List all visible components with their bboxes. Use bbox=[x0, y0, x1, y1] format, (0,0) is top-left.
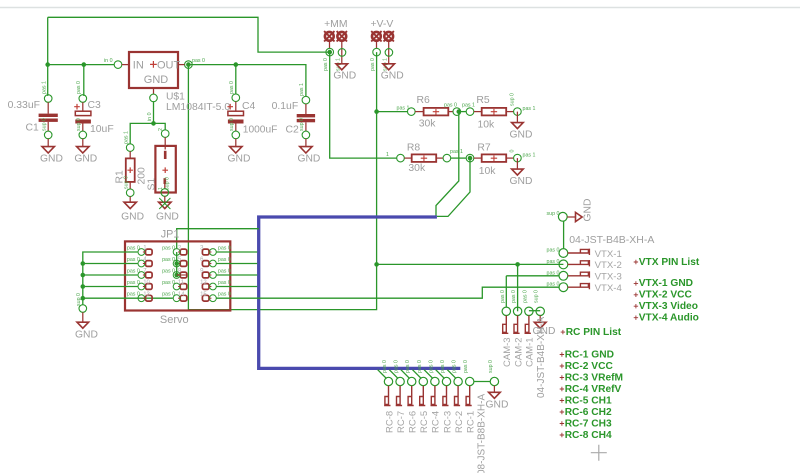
svg-text:RC-6 CH2: RC-6 CH2 bbox=[565, 407, 612, 418]
svg-text:RC-1: RC-1 bbox=[466, 411, 477, 433]
svg-text:GND: GND bbox=[333, 70, 356, 81]
svg-text:C1: C1 bbox=[26, 123, 40, 134]
pin GND of U$1 bbox=[147, 88, 157, 121]
text RC-8 CH4 bbox=[560, 430, 612, 441]
svg-text:pas 0: pas 0 bbox=[547, 259, 560, 265]
wire JP1 ch2 to bus bbox=[216, 263, 257, 265]
resistor R8 30k bbox=[386, 152, 451, 162]
pin RC-2 bbox=[447, 360, 465, 433]
pad JP1 col3 row3 bbox=[200, 269, 231, 279]
svg-text:10: 10 bbox=[143, 280, 150, 286]
svg-text:VTX-4 Audio: VTX-4 Audio bbox=[639, 313, 699, 324]
ground right of R7 bbox=[510, 150, 533, 187]
svg-text:30k: 30k bbox=[408, 163, 426, 174]
svg-text:VTX-3: VTX-3 bbox=[595, 272, 622, 283]
text VTX-2 VCC bbox=[634, 290, 693, 301]
svg-text:Servo: Servo bbox=[160, 314, 189, 326]
pin CAM GND bbox=[534, 290, 545, 316]
svg-text:pas 0: pas 0 bbox=[547, 248, 560, 254]
svg-text:pas 0: pas 0 bbox=[511, 290, 517, 303]
wire JP1 row5 to VTX-4 (audio) bbox=[216, 287, 559, 298]
svg-text:C4: C4 bbox=[242, 101, 256, 112]
svg-text:10uF: 10uF bbox=[90, 124, 114, 135]
svg-text:pas 0: pas 0 bbox=[162, 246, 175, 252]
ground below S1 bbox=[156, 196, 179, 222]
text RC-2 VCC bbox=[560, 361, 614, 372]
pin OUT of U$1 bbox=[178, 58, 205, 68]
sheet origin cross bbox=[591, 445, 607, 461]
svg-text:RC-4 VRefV: RC-4 VRefV bbox=[565, 384, 622, 395]
svg-text:pas 1: pas 1 bbox=[42, 81, 48, 94]
svg-text:pas 1: pas 1 bbox=[462, 103, 475, 109]
junction gnd rail bbox=[81, 284, 86, 289]
svg-text:pas 0: pas 0 bbox=[522, 290, 528, 303]
pin IN of U$1 bbox=[104, 58, 129, 68]
pin RC-5 bbox=[413, 360, 431, 433]
capacitor C1 0.33uF bbox=[39, 81, 58, 139]
svg-text:GND: GND bbox=[583, 199, 594, 222]
wire VIN drop to C1/IN bbox=[47, 17, 49, 64]
wire to S1 bbox=[154, 123, 166, 129]
svg-text:GND: GND bbox=[121, 211, 144, 222]
svg-text:GND: GND bbox=[156, 211, 179, 222]
junction gnd rail bbox=[81, 273, 86, 278]
wire JP1 ch1 to bus bbox=[216, 251, 257, 253]
svg-text:pas 0: pas 0 bbox=[463, 360, 469, 373]
svg-text:GND: GND bbox=[510, 176, 533, 187]
svg-text:OUT: OUT bbox=[157, 59, 181, 71]
pin RC-8 bbox=[378, 360, 396, 433]
svg-text:RC-8: RC-8 bbox=[384, 411, 395, 433]
pad JP1 col1 row4 bbox=[127, 280, 152, 290]
svg-text:sup 0: sup 0 bbox=[76, 118, 82, 131]
svg-text:CAM-1: CAM-1 bbox=[525, 337, 536, 367]
svg-text:RC-2: RC-2 bbox=[454, 411, 465, 433]
svg-text:+V-V: +V-V bbox=[370, 19, 393, 30]
svg-text:S1: S1 bbox=[147, 178, 158, 191]
svg-text:in 0: in 0 bbox=[104, 58, 113, 64]
svg-text:sup 0: sup 0 bbox=[534, 290, 540, 303]
svg-text:12: 12 bbox=[200, 280, 207, 286]
svg-text:pas 1: pas 1 bbox=[450, 149, 463, 155]
svg-text:sup 0: sup 0 bbox=[42, 118, 48, 131]
resistor R7 10k bbox=[466, 153, 535, 162]
connector JP1 outline bbox=[125, 241, 230, 310]
svg-text:RC-6: RC-6 bbox=[408, 411, 419, 433]
pin RC-6 bbox=[401, 360, 419, 433]
wire VTX-3 to CAM-3 bbox=[506, 275, 559, 277]
svg-text:pas 0: pas 0 bbox=[547, 282, 560, 288]
junction gnd rail bbox=[81, 261, 86, 266]
pin VTX-4 bbox=[547, 282, 623, 294]
ground right of R5 bbox=[510, 93, 533, 140]
svg-text:sup 0: sup 0 bbox=[299, 118, 305, 131]
wire C1 stub bbox=[47, 65, 49, 96]
svg-text:sup 0: sup 0 bbox=[547, 211, 560, 217]
svg-text:GND: GND bbox=[510, 129, 533, 140]
pin GND rail bbox=[79, 305, 87, 313]
pad +V-V 1 bbox=[370, 31, 382, 71]
svg-text:LM1084IT-5.0: LM1084IT-5.0 bbox=[166, 102, 230, 113]
pad JP1 col3 row4 bbox=[200, 280, 231, 290]
svg-text:sup 0: sup 0 bbox=[76, 293, 82, 306]
pad JP1 col2 row2 bbox=[162, 257, 187, 267]
text VTX-3 Video bbox=[634, 301, 698, 312]
svg-text:11: 11 bbox=[178, 280, 185, 286]
wire JP1 middle column pins 1-3 bbox=[176, 252, 178, 275]
pin RC-4 bbox=[424, 360, 442, 433]
svg-text:sup 0: sup 0 bbox=[229, 118, 235, 131]
svg-text:pas 0: pas 0 bbox=[500, 290, 506, 303]
pin CAM-1 bbox=[522, 290, 535, 367]
capacitor C4 1000uF bbox=[227, 81, 243, 139]
svg-text:VTX-2 VCC: VTX-2 VCC bbox=[639, 290, 693, 301]
wire VIN to IN pin bbox=[48, 64, 115, 66]
svg-text:pas 0: pas 0 bbox=[218, 246, 231, 252]
svg-text:GND: GND bbox=[297, 153, 320, 164]
pad JP1 col3 row1 bbox=[200, 246, 231, 256]
wire JP1 gnd row 2 bbox=[83, 263, 138, 265]
svg-text:pas 0: pas 0 bbox=[218, 280, 231, 286]
svg-text:sup 0: sup 0 bbox=[165, 177, 171, 190]
junction C4 tap bbox=[234, 62, 239, 67]
ground below C3 bbox=[74, 139, 97, 165]
svg-text:JP1: JP1 bbox=[161, 228, 180, 240]
svg-text:R7: R7 bbox=[477, 143, 491, 154]
text RC-3 VRefM bbox=[560, 372, 623, 383]
ground below CAM connector bbox=[533, 316, 556, 338]
junction +MM pad bbox=[327, 50, 332, 55]
wire CAM-1 to CAM GND pin bbox=[529, 310, 540, 312]
svg-text:sup 0: sup 0 bbox=[510, 93, 516, 106]
svg-text:pas 0: pas 0 bbox=[76, 81, 82, 94]
wire JP1 gnd row 4 bbox=[83, 286, 138, 288]
switch S1 bbox=[155, 128, 175, 196]
svg-text:RC-7: RC-7 bbox=[396, 411, 407, 433]
wire +MM down to R8 bbox=[330, 52, 397, 158]
text RC-6 CH2 bbox=[560, 407, 612, 418]
wire R8 to R7 bbox=[450, 149, 472, 160]
svg-text:pas 0: pas 0 bbox=[382, 360, 388, 373]
wire VCC to CAM-2 bbox=[517, 264, 519, 311]
svg-text:GND: GND bbox=[75, 330, 98, 341]
svg-text:pas 0: pas 0 bbox=[127, 257, 140, 263]
svg-text:pas 0: pas 0 bbox=[394, 360, 400, 373]
junction gnd rail bbox=[81, 296, 86, 301]
wire JP1 gnd row 5 bbox=[83, 297, 173, 299]
svg-text:sup 0: sup 0 bbox=[488, 360, 494, 373]
svg-text:1000uF: 1000uF bbox=[243, 124, 278, 135]
svg-text:pas 1: pas 1 bbox=[299, 83, 305, 96]
pin VTX-3 bbox=[547, 270, 622, 282]
wire JP1 ch4 to bus bbox=[216, 286, 257, 288]
svg-text:GND: GND bbox=[381, 70, 404, 81]
text VTX PIN List bbox=[634, 257, 700, 268]
pad JP1 col3 row5 bbox=[200, 292, 231, 302]
svg-text:pas 0: pas 0 bbox=[428, 360, 434, 373]
svg-text:pas 0: pas 0 bbox=[218, 269, 231, 275]
svg-text:IN: IN bbox=[133, 59, 144, 71]
svg-text:30k: 30k bbox=[419, 119, 437, 130]
wire C4 stub bbox=[235, 65, 237, 94]
ground below C4 bbox=[228, 139, 251, 165]
svg-text:RC PIN List: RC PIN List bbox=[566, 327, 622, 338]
pin VTX-2 bbox=[547, 259, 622, 271]
svg-text:GND: GND bbox=[40, 153, 63, 164]
svg-text:U$1: U$1 bbox=[166, 92, 185, 103]
svg-text:pas 1: pas 1 bbox=[523, 153, 536, 159]
junction +V-V to R6 bbox=[374, 109, 379, 114]
svg-text:RC-7 CH3: RC-7 CH3 bbox=[565, 418, 612, 429]
wire C3 stub bbox=[83, 65, 85, 96]
svg-text:1: 1 bbox=[386, 152, 389, 158]
pin CAM-3 bbox=[500, 290, 513, 367]
junction mid col row3 bbox=[174, 273, 179, 278]
svg-text:VTX-4: VTX-4 bbox=[595, 283, 623, 294]
resistor R6 30k bbox=[397, 106, 461, 116]
svg-text:0: 0 bbox=[510, 150, 516, 153]
wire VIN top rail bbox=[48, 17, 330, 52]
svg-text:C3: C3 bbox=[88, 100, 102, 111]
pad +MM 2 bbox=[335, 31, 347, 71]
svg-text:VTX-1 GND: VTX-1 GND bbox=[639, 278, 693, 289]
wire OUT net horizontal bbox=[188, 65, 306, 97]
pad JP1 col2 row5 bbox=[162, 292, 187, 302]
svg-text:pas 0: pas 0 bbox=[444, 103, 457, 109]
svg-text:CAM-2: CAM-2 bbox=[513, 337, 524, 367]
pin RC-1 bbox=[463, 360, 476, 433]
svg-text:1: 1 bbox=[158, 187, 164, 190]
svg-text:VTX-2: VTX-2 bbox=[595, 260, 622, 271]
pad JP1 col1 row2 bbox=[127, 257, 152, 267]
svg-text:04-JST-B4B-XH-A: 04-JST-B4B-XH-A bbox=[536, 317, 547, 398]
resistor R1 200 bbox=[124, 131, 135, 197]
svg-text:2: 2 bbox=[158, 128, 164, 131]
svg-text:10k: 10k bbox=[479, 166, 497, 177]
svg-text:pas 1: pas 1 bbox=[124, 131, 130, 144]
pin RC GND bbox=[488, 360, 499, 386]
wire JP1 gnd row 3 bbox=[83, 274, 138, 276]
svg-text:GND: GND bbox=[74, 153, 97, 164]
svg-text:0.33uF: 0.33uF bbox=[8, 100, 40, 111]
svg-text:RC-5: RC-5 bbox=[419, 411, 430, 433]
svg-text:pas 0: pas 0 bbox=[370, 58, 376, 71]
svg-text:GND: GND bbox=[144, 74, 169, 86]
svg-text:pas 0: pas 0 bbox=[127, 280, 140, 286]
svg-text:pas 0: pas 0 bbox=[162, 269, 175, 275]
ground above VTX-1 bbox=[547, 199, 594, 222]
svg-text:VTX-3 Video: VTX-3 Video bbox=[639, 301, 698, 312]
pin RC-3 bbox=[436, 360, 454, 433]
svg-text:R6: R6 bbox=[417, 95, 431, 106]
wire JP1 ground rail bbox=[83, 252, 138, 305]
svg-text:in 0: in 0 bbox=[147, 112, 153, 121]
pad JP1 col2 row4 bbox=[162, 280, 187, 290]
svg-text:GND: GND bbox=[228, 153, 251, 164]
pad +MM 1 bbox=[323, 31, 335, 71]
svg-text:pas 0: pas 0 bbox=[127, 292, 140, 298]
svg-text:pas 0: pas 0 bbox=[229, 81, 235, 94]
svg-text:15: 15 bbox=[200, 292, 207, 298]
wire bus to JP1 middle column bbox=[177, 229, 259, 249]
svg-text:RC-3: RC-3 bbox=[442, 411, 453, 433]
wire VRefV R6/R5 junction to bus bbox=[436, 112, 459, 218]
voltage regulator U$1 LM1084IT-5.0 bbox=[129, 52, 181, 88]
junction VIN/C1 bbox=[45, 62, 50, 67]
capacitor C3 10uF bbox=[74, 81, 91, 139]
wire JP1 ch3 to bus bbox=[216, 274, 257, 276]
pad JP1 col1 row3 bbox=[127, 269, 152, 279]
text VTX-4 Audio bbox=[634, 313, 699, 324]
pin CAM-2 bbox=[511, 290, 524, 367]
junction CAM-2 tap bbox=[515, 262, 520, 267]
pad +V-V 2 bbox=[382, 31, 394, 71]
svg-text:pas 0: pas 0 bbox=[218, 292, 231, 298]
ground below C2 bbox=[297, 139, 320, 165]
ground below RC connector bbox=[486, 386, 509, 411]
svg-text:04-JST-B4B-XH-A: 04-JST-B4B-XH-A bbox=[569, 234, 654, 246]
svg-text:pas 0: pas 0 bbox=[405, 360, 411, 373]
wire OUT down through JP1 to +V-V bbox=[188, 52, 376, 310]
svg-text:VTX PIN List: VTX PIN List bbox=[639, 257, 700, 268]
pad JP1 col2 row1 bbox=[162, 246, 187, 256]
pad JP1 col2 row3 bbox=[162, 269, 187, 279]
junction R6/R5 bbox=[444, 103, 466, 114]
ground below C1 bbox=[40, 139, 63, 165]
svg-text:RC-8 CH4: RC-8 CH4 bbox=[565, 430, 612, 441]
svg-text:pas 0: pas 0 bbox=[452, 360, 458, 373]
svg-text:10k: 10k bbox=[478, 119, 496, 130]
pin VTX-1 bbox=[547, 248, 622, 260]
svg-text:08-JST-B8B-XH-A: 08-JST-B8B-XH-A bbox=[476, 394, 487, 473]
svg-text:pas 1: pas 1 bbox=[523, 106, 536, 112]
wire VRefM R8/R7 junction to bus bbox=[437, 158, 470, 216]
wire U$1 GND to R1/S1 bbox=[153, 102, 155, 124]
junction GND pin net bbox=[151, 121, 156, 126]
junction OUT pin bbox=[186, 62, 191, 67]
svg-text:pas 0: pas 0 bbox=[162, 292, 175, 298]
text RC PIN List bbox=[561, 327, 622, 338]
svg-text:pas 0: pas 0 bbox=[127, 269, 140, 275]
text RC-4 VRefV bbox=[560, 384, 622, 395]
ground below R1 bbox=[121, 197, 144, 223]
svg-text:R5: R5 bbox=[476, 95, 490, 106]
text RC-1 GND bbox=[560, 349, 614, 360]
pad JP1 col3 row2 bbox=[200, 257, 231, 267]
svg-text:+MM: +MM bbox=[324, 19, 347, 30]
svg-text:pas 0: pas 0 bbox=[417, 360, 423, 373]
junction C3 tap bbox=[82, 62, 87, 67]
wire VCC to VTX-2 bbox=[377, 263, 564, 265]
resistor R5 10k bbox=[462, 103, 536, 116]
svg-text:RC-5 CH1: RC-5 CH1 bbox=[565, 395, 612, 406]
svg-text:C2: C2 bbox=[286, 124, 300, 135]
svg-text:pas 0: pas 0 bbox=[218, 257, 231, 263]
svg-text:VTX-1: VTX-1 bbox=[595, 249, 622, 260]
wire VTX-1 to ground bbox=[563, 221, 565, 248]
pad JP1 col1 row1 bbox=[127, 246, 152, 256]
bus (blue) bbox=[259, 217, 461, 368]
svg-text:0.1uF: 0.1uF bbox=[272, 101, 299, 112]
svg-text:pas 0: pas 0 bbox=[162, 280, 175, 286]
pin RC-7 bbox=[389, 360, 407, 433]
svg-text:R1: R1 bbox=[115, 170, 126, 184]
junction mid col row2 bbox=[174, 261, 179, 266]
wire RC-1 to GND pin bbox=[474, 381, 490, 383]
text RC-7 CH3 bbox=[560, 418, 612, 429]
wire +V-V to R6 bbox=[377, 111, 408, 113]
svg-text:RC-3 VRefM: RC-3 VRefM bbox=[565, 372, 623, 383]
svg-text:RC-4: RC-4 bbox=[431, 411, 442, 433]
ground below JP1 rail bbox=[75, 293, 98, 341]
svg-text:RC-1 GND: RC-1 GND bbox=[565, 349, 614, 360]
text VTX-1 GND bbox=[634, 278, 693, 289]
junction VTX-2 tap bbox=[374, 262, 379, 267]
wire to R1 bbox=[130, 123, 153, 143]
svg-text:pas 0: pas 0 bbox=[440, 360, 446, 373]
svg-text:pas 0: pas 0 bbox=[192, 58, 205, 64]
svg-text:pas 0: pas 0 bbox=[162, 257, 175, 263]
svg-text:R8: R8 bbox=[407, 143, 421, 154]
text RC-5 CH1 bbox=[560, 395, 612, 406]
svg-text:pas 1: pas 1 bbox=[397, 106, 410, 112]
svg-text:CAM-3: CAM-3 bbox=[502, 337, 513, 367]
svg-text:GND: GND bbox=[486, 399, 509, 410]
svg-text:RC-2 VCC: RC-2 VCC bbox=[565, 361, 614, 372]
svg-text:13: 13 bbox=[143, 292, 150, 298]
svg-text:14: 14 bbox=[178, 292, 185, 298]
ground below +V-V bbox=[381, 64, 404, 82]
capacitor C2 0.1uF bbox=[297, 83, 315, 139]
pad JP1 col1 row5 bbox=[127, 292, 152, 302]
svg-text:pas 0: pas 0 bbox=[323, 58, 329, 71]
svg-text:pas 0: pas 0 bbox=[127, 246, 140, 252]
ground below +MM bbox=[333, 64, 356, 82]
